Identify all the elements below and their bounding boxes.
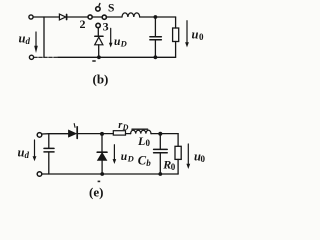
wire inductor to node (b) bbox=[140, 16, 176, 18]
terminal bottom-left (e) bbox=[37, 172, 42, 177]
diode VD (b) cathode bar bbox=[95, 35, 103, 37]
wire input cap lower lead (e) bbox=[48, 152, 50, 174]
arrow u_0 (b) bbox=[185, 21, 189, 48]
svg-text:L: L bbox=[137, 134, 145, 148]
arrow u_d (e) bbox=[33, 140, 37, 161]
svg-text:(b): (b) bbox=[93, 72, 109, 87]
svg-text:0: 0 bbox=[199, 32, 204, 42]
inductor L_0 (e) bbox=[131, 130, 151, 133]
svg-text:2: 2 bbox=[80, 17, 86, 31]
capacitor C (b) bottom plate bbox=[150, 39, 161, 41]
wire cap lower lead (b) bbox=[154, 40, 156, 57]
junction dot C_b bottom (e) bbox=[158, 172, 162, 176]
wire input vertical (b) bbox=[43, 17, 45, 57]
svg-text:0: 0 bbox=[146, 138, 151, 148]
resistor load R (b) bbox=[173, 28, 179, 42]
terminal top-left (e) bbox=[37, 133, 42, 138]
label C_b (e) bbox=[138, 154, 152, 168]
label u_D (e) bbox=[121, 151, 134, 164]
svg-text:D: D bbox=[122, 123, 129, 132]
arrow u_d (b) bbox=[34, 32, 38, 53]
svg-text:D: D bbox=[127, 154, 134, 164]
terminal bottom-left (b) bbox=[29, 55, 33, 59]
svg-text:S: S bbox=[108, 3, 114, 15]
wire R_0 lower lead (e) bbox=[177, 159, 179, 174]
inductor L_0 core bar (e) bbox=[132, 128, 148, 130]
wire bottom rail (e) bbox=[42, 173, 179, 175]
label u_0 (e) bbox=[194, 150, 206, 164]
wire node to diode VD2 (e) bbox=[101, 136, 103, 152]
capacitor C_b (e) bottom plate bbox=[154, 152, 168, 154]
capacitor input (e) top plate bbox=[44, 147, 54, 149]
arrow u_D (e) bbox=[113, 145, 117, 164]
resistor R_0 (e) bbox=[175, 146, 181, 159]
switch arm tick (b) bbox=[98, 4, 101, 6]
diode V (b) cathode bar bbox=[66, 15, 68, 20]
junction dot node top (e) bbox=[100, 132, 104, 136]
svg-text:D: D bbox=[120, 39, 127, 49]
diode V (b) series triangle bbox=[59, 14, 65, 20]
svg-text:0: 0 bbox=[201, 154, 206, 164]
diode VD2 (e) triangle bbox=[98, 153, 107, 160]
svg-text:(e): (e) bbox=[89, 184, 103, 199]
wire C_b upper lead (e) bbox=[159, 134, 161, 149]
wire L_0 to node (e) bbox=[151, 133, 178, 135]
diode VD (b) triangle bbox=[95, 37, 103, 45]
junction dot cap-bottom (b) bbox=[154, 55, 158, 59]
wire diode VD2 anode to bottom rail (e) bbox=[101, 160, 103, 174]
resistor r_D (e) bbox=[113, 131, 125, 135]
svg-text:b: b bbox=[146, 158, 151, 168]
svg-text:0: 0 bbox=[171, 162, 176, 172]
switch contact circle right (b) bbox=[102, 15, 106, 19]
svg-text:u: u bbox=[192, 28, 199, 42]
wire top rail left (b) bbox=[33, 16, 59, 18]
junction dot diode-bottom (e) bbox=[100, 172, 104, 176]
svg-text:d: d bbox=[25, 150, 30, 160]
label u_d (b) bbox=[19, 32, 31, 47]
wire right edge upper (b) bbox=[175, 17, 177, 28]
diode VD1 (e) series triangle bbox=[69, 130, 76, 137]
diode VD2 (e) cathode bar bbox=[97, 151, 107, 153]
switch pole circle S (b) bbox=[96, 7, 100, 11]
junction dot C_b top (e) bbox=[158, 132, 162, 136]
junction dot diode-bottom (b) bbox=[97, 55, 101, 59]
label u_d (e) bbox=[18, 146, 30, 161]
svg-text:u: u bbox=[18, 146, 25, 160]
capacitor C_b (e) top plate bbox=[154, 148, 168, 150]
wire r_D to L_0 (e) bbox=[126, 133, 131, 135]
label r_D (e) bbox=[118, 120, 128, 132]
wire diode VD anode to bottom rail (b) bbox=[98, 45, 100, 58]
label R_0 (e) bbox=[162, 158, 176, 173]
label L_0 (e) bbox=[137, 134, 151, 148]
wire C_b lower lead (e) bbox=[159, 153, 161, 174]
label u_D (b) bbox=[114, 36, 127, 49]
wire diode to contact 2 (b) bbox=[68, 16, 88, 18]
wire input cap upper lead (e) bbox=[48, 134, 50, 148]
wire contact 3 to diode VD (b) bbox=[97, 28, 99, 36]
wire cap upper lead (b) bbox=[154, 17, 156, 36]
switch contact circle 3 (b) bbox=[96, 23, 100, 27]
svg-text:3: 3 bbox=[103, 19, 109, 33]
arrow u_0 (e) bbox=[186, 144, 190, 169]
capacitor input (e) bottom plate bbox=[44, 151, 54, 153]
wire R_0 upper lead (e) bbox=[177, 134, 179, 147]
wire right edge lower (b) bbox=[175, 42, 177, 58]
diode VD1 (e) cathode bar bbox=[76, 127, 78, 139]
inductor L (b) bbox=[122, 13, 140, 17]
wire diode to node (e) bbox=[78, 133, 113, 135]
wire bottom rail (b) bbox=[34, 56, 58, 58]
terminal top-left (b) bbox=[29, 15, 33, 19]
diode VD1 (e) tick bbox=[73, 124, 76, 128]
wire between switch contacts (b) bbox=[92, 16, 102, 18]
svg-text:u: u bbox=[19, 32, 26, 46]
capacitor C (b) top plate bbox=[150, 36, 161, 38]
wire contact to inductor (b) bbox=[107, 16, 123, 18]
switch contact circle left (b) bbox=[88, 15, 92, 19]
speck near (b) bbox=[92, 60, 95, 62]
wire top rail left (e) bbox=[42, 133, 69, 135]
arrow u_D (b) bbox=[109, 28, 113, 47]
label u_0 (b) bbox=[192, 28, 205, 43]
junction dot cap-top (b) bbox=[154, 15, 158, 19]
speck above (e) bbox=[98, 181, 101, 183]
svg-text:d: d bbox=[26, 36, 31, 46]
